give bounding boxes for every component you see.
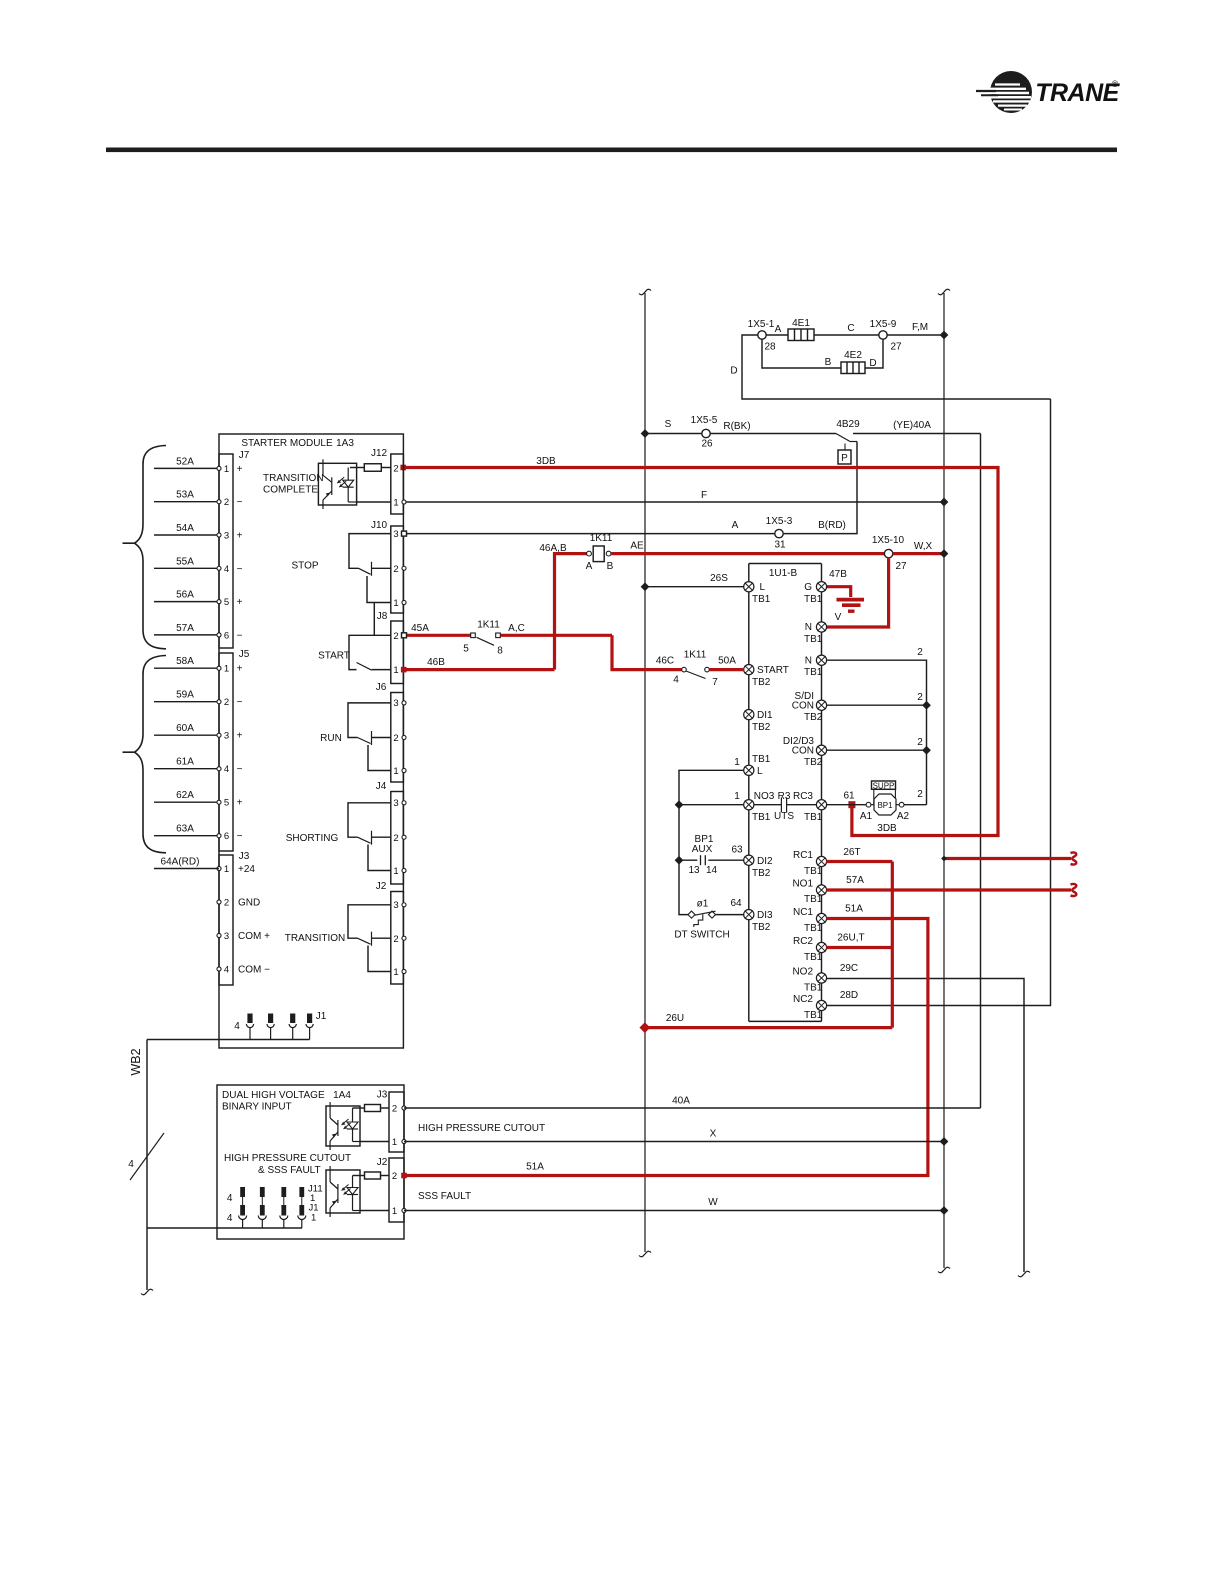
svg-text:53A: 53A [176,490,194,501]
wire STOP lower to J10-1 [367,576,391,603]
svg-text:64A(RD): 64A(RD) [161,857,200,868]
wire RUN lower to J6-1 [368,745,391,771]
wire 64A(RD) to J3 pin 1 [154,868,219,870]
junction internal bus at NO3 [675,800,684,809]
J3 pin 4 [217,967,221,971]
terminal DI2 TB2 (1U1-B) [744,855,754,865]
svg-text:S: S [665,419,672,430]
junction on bus L2 at W,X [940,549,949,558]
svg-text:TB1: TB1 [804,866,823,877]
junction on bus L1 at 26S [641,582,650,591]
svg-text:1: 1 [734,791,740,802]
fuse 4E2 [841,362,865,374]
red junction square at node 61 [848,801,855,808]
wire 60A to J5 pin 3 [154,734,219,736]
node 1X5-1 terminal 28 [758,331,766,339]
module STARTER MODULE 1A3 outline [219,434,403,1048]
svg-text:+: + [237,464,243,475]
terminal DI1 TB2 (1U1-B) [744,710,754,720]
terminal N TB1 second (1U1-B) [816,655,826,665]
svg-text:1: 1 [393,766,398,777]
brace for J7 wire group [123,446,167,649]
terminal NO3 TB1 (1U1-B) [744,800,754,810]
red diamond junction at bus L1 / 26U [639,1022,650,1033]
junction on bus L2 at F,M [940,331,949,340]
svg-text:40A: 40A [672,1096,690,1107]
svg-text:54A: 54A [176,523,194,534]
resistor at J2-2 (SSS) [365,1172,381,1179]
wire 50A (red) from contact 7 to terminal START [709,668,744,671]
svg-text:J6: J6 [376,682,387,693]
svg-text:TB1: TB1 [804,667,823,678]
wire net B lower loop 28 to 4E2 [762,339,841,368]
wire from terminal DI2/D3 CON to vertical 2 [826,749,926,751]
terminal NC1 TB1 (1U1-B) [816,913,826,923]
svg-text:1: 1 [392,1137,397,1148]
svg-text:+: + [237,798,243,809]
svg-text:3DB: 3DB [536,456,556,467]
svg-text:7: 7 [712,677,718,688]
junction on bus L2 at X [940,1137,949,1146]
terminal RC3 TB1 (1U1-B) [816,800,826,810]
switch RUN [320,703,391,745]
svg-text:P: P [841,453,848,464]
wire vertical bus L2 [943,293,945,1268]
svg-text:STARTER MODULE: STARTER MODULE [241,438,333,449]
switch DT SWITCH phase 1 [674,899,729,941]
J2 pin 1 (binary input) [402,1208,406,1212]
J4 pin 3 [402,801,406,805]
svg-text:4: 4 [224,564,229,575]
svg-text:3: 3 [393,798,398,809]
J2 pin 3 [402,903,406,907]
wire J10-1 to J8-2 internal [373,603,375,636]
connector J10 [391,526,404,613]
svg-text:2: 2 [917,647,923,658]
switch 1K11 contacts 5-8 [463,620,525,657]
svg-text:NC2: NC2 [793,994,813,1005]
svg-text:26U,T: 26U,T [837,933,864,944]
wire 1A4 bottom to J3-1 [360,1141,389,1143]
svg-text:3: 3 [224,531,229,542]
resistor at J12-2 [364,464,381,472]
svg-text:56A: 56A [176,590,194,601]
svg-text:+24: +24 [238,864,255,875]
junction at DI2/D3 CON and vertical 2 [922,746,931,755]
connector J4 [391,792,404,885]
svg-text:14: 14 [706,865,718,876]
svg-text:GND: GND [238,898,260,909]
svg-text:WB2: WB2 [129,1048,143,1075]
svg-text:1X5-1: 1X5-1 [748,319,775,330]
svg-text:HIGH PRESSURE CUTOUT: HIGH PRESSURE CUTOUT [224,1153,351,1164]
Trane logo [976,71,1121,113]
connector J3 (binary input) [389,1092,404,1152]
J3 pin 3 [217,933,221,937]
svg-text:1: 1 [393,967,398,978]
wire 40A from J3-2 to 40A vertical [404,1107,981,1109]
svg-text:45A: 45A [411,623,429,634]
wire 26T (red) from RC1 to red riser [826,860,892,863]
J4 pin 1 [402,868,406,872]
svg-text:NC1: NC1 [793,907,813,918]
connector J2 (starter module) [391,892,404,985]
svg-text:1: 1 [393,598,398,609]
J5 pin 1 [217,666,221,670]
svg-text:8: 8 [497,646,503,657]
svg-text:J2: J2 [377,1157,388,1168]
wire from J1 pins to WB2 drop [147,1039,310,1041]
svg-text:B: B [825,357,832,368]
connector J5 [219,653,233,851]
svg-text:1K11: 1K11 [590,533,613,544]
svg-text:F: F [701,490,707,501]
wire TRANSITION lower to J2-1 [368,946,391,972]
svg-text:3: 3 [224,731,229,742]
svg-text:AE: AE [630,541,644,552]
svg-text:RC1: RC1 [793,850,813,861]
wire 1X5-1 to 4E1 [766,334,788,336]
svg-text:®: ® [1112,79,1119,89]
svg-text:1: 1 [224,864,229,875]
svg-text:51A: 51A [845,904,863,915]
svg-text:2: 2 [393,733,398,744]
wire SSS opto to resistor to J2-2 [353,1175,365,1177]
svg-text:HIGH PRESSURE CUTOUT: HIGH PRESSURE CUTOUT [418,1123,545,1134]
wire 46C (red) from 45A corner to 1K11 contact 4 [612,635,682,669]
wire X from J3-1 to bus L2 [404,1141,944,1143]
svg-text:63: 63 [731,845,743,856]
svg-text:J2: J2 [376,881,387,892]
svg-text:4E1: 4E1 [792,318,810,329]
svg-text:1A4: 1A4 [333,1090,351,1101]
svg-text:62A: 62A [176,790,194,801]
svg-text:J7: J7 [239,450,250,461]
J6 pin 2 [402,735,406,739]
wire W,X (red) from 1X5-10 to bus L2 [893,552,944,555]
svg-text:D: D [869,358,876,369]
wire SHORTING lower to J4-1 [368,845,391,871]
svg-text:A2: A2 [897,811,910,822]
svg-text:TB1: TB1 [752,812,771,823]
svg-text:29C: 29C [840,963,858,974]
wire break top of bus L1 [639,289,651,295]
wire DT switch to terminal DI3 label 64 [715,914,744,916]
svg-text:A1: A1 [860,811,873,822]
wire 46B (red) from J8-1 to 46A,B riser [406,668,555,671]
svg-text:BP1: BP1 [877,801,893,810]
svg-text:TB1: TB1 [804,923,823,934]
wire 26U,T (red) from RC2 to red riser [826,946,892,949]
wire from J11/J1 pins to WB2 drop [147,1227,302,1229]
J7 pin 5 [217,600,221,604]
svg-text:TB2: TB2 [752,922,771,933]
pressure switch 4B29 [836,419,860,464]
wire 54A to J7 pin 3 [154,534,219,536]
wire 59A to J5 pin 2 [154,701,219,703]
svg-text:TB2: TB2 [804,712,823,723]
svg-text:61: 61 [843,791,855,802]
svg-text:V: V [835,612,842,623]
svg-text:1K11: 1K11 [477,620,500,631]
wire 58A to J5 pin 1 [154,667,219,669]
svg-text:NO1: NO1 [792,879,813,890]
svg-text:2: 2 [393,934,398,945]
connector J12 [391,454,404,514]
svg-text:4: 4 [224,764,229,775]
terminal DI2/D3 CON TB2 (1U1-B) [816,745,826,755]
svg-text:TB1: TB1 [804,812,823,823]
svg-text:1X5-3: 1X5-3 [766,516,793,527]
svg-text:1: 1 [393,665,398,676]
J3 pin 2 (binary input) [402,1106,406,1110]
wire vertical bus L1 [644,293,646,1252]
svg-text:1: 1 [393,866,398,877]
wire 26S from bus L1 to terminal L [645,586,744,588]
svg-text:4: 4 [128,1159,134,1170]
svg-text:1K11: 1K11 [684,650,707,661]
svg-text:TB1: TB1 [804,952,823,963]
svg-text:DUAL HIGH VOLTAGE: DUAL HIGH VOLTAGE [222,1090,325,1101]
wire break bottom of 29C [1018,1271,1030,1277]
svg-text:6: 6 [224,831,229,842]
svg-text:TB2: TB2 [752,868,771,879]
svg-text:J8: J8 [377,611,388,622]
svg-text:SSS FAULT: SSS FAULT [418,1191,471,1202]
terminal NO1 TB1 (1U1-B) [816,885,826,895]
svg-text:+: + [237,531,243,542]
J6 pin 1 [402,768,406,772]
svg-text:4: 4 [234,1021,240,1032]
junction on bus L1 at S row [641,429,650,438]
wire off-page (red) from bus L2 with hook, RC1 row [944,857,1071,860]
wire 53A to J7 pin 2 [154,501,219,503]
red riser 26T/26U [891,862,894,1028]
svg-text:27: 27 [895,561,907,572]
wire 46A,B (red) from 46B row up to 1K11 coil A [555,554,587,670]
wire 63A to J5 pin 6 [154,835,219,837]
wire 3DB (red) from J12-2 right, down, to terminal 61 [403,468,998,836]
wire 26U (red) from bus L1 to red riser [645,1026,893,1029]
svg-text:26T: 26T [843,847,860,858]
junction at S/DI CON and vertical 2 [922,701,931,710]
svg-text:COMPLETE: COMPLETE [263,485,318,496]
J10 pin 1 [402,600,406,604]
svg-text:3DB: 3DB [877,823,897,834]
svg-text:2: 2 [392,1171,397,1182]
svg-text:−: − [237,564,243,575]
svg-text:COM −: COM − [238,965,270,976]
junction on bus L2 at W [940,1206,949,1215]
svg-text:ø1: ø1 [697,899,709,910]
svg-text:58A: 58A [176,656,194,667]
J6 pin 3 [402,701,406,705]
svg-text:RUN: RUN [320,733,342,744]
svg-text:60A: 60A [176,723,194,734]
svg-text:1: 1 [392,1206,397,1217]
svg-text:2: 2 [393,464,398,475]
terminal L TB1 lower (1U1-B) [744,765,754,775]
terminal DI3 TB2 (1U1-B) [744,910,754,920]
svg-text:CON: CON [792,746,814,757]
off-page hook arrow lower [1071,884,1077,896]
svg-text:1U1-B: 1U1-B [769,568,798,579]
svg-text:R(BK): R(BK) [723,421,750,432]
svg-text:−: − [237,630,243,641]
wire suppressor A2 to vertical 2 [904,804,927,806]
svg-text:G: G [804,582,812,593]
wire net D 4E2 to 27 [865,339,883,368]
connector J8 [391,621,404,684]
svg-text:57A: 57A [176,623,194,634]
wire internal bus to NO3 [679,804,744,806]
connector J1 (starter module bottom) [234,1011,327,1040]
svg-text:B: B [607,561,614,572]
svg-text:26U: 26U [666,1013,684,1024]
wire S from bus L1 to 1X5-5 [645,433,702,435]
wire net F from J12-1 to bus L2 [403,501,944,503]
svg-text:6: 6 [224,630,229,641]
svg-text:31: 31 [774,540,786,551]
svg-text:1A3: 1A3 [336,438,354,449]
svg-text:63A: 63A [176,824,194,835]
switch START [318,635,391,670]
svg-text:AUX: AUX [692,844,713,855]
svg-text:D: D [730,366,737,377]
wire 47B (red) from terminal G to ground [826,587,850,597]
wire AE (red) from coil B to 1X5-10 [611,552,884,555]
connector J6 [391,693,404,783]
svg-text:46A,B: 46A,B [539,543,567,554]
connector J2 (binary input) [389,1158,404,1222]
svg-text:3: 3 [224,931,229,942]
J3 pin 1 (binary input) [402,1139,406,1143]
wire 57A (red) from NO1 to off-page hook [826,888,1071,891]
svg-text:F,M: F,M [912,322,928,333]
svg-text:28: 28 [764,342,776,353]
wire B(RD) from 1X5-3 up to 4B29 [783,442,857,534]
svg-text:J3: J3 [377,1090,388,1101]
J4 pin 2 [402,835,406,839]
svg-text:3: 3 [393,900,398,911]
switch SHORTING [286,803,391,845]
svg-text:13: 13 [688,865,700,876]
wire RC3 to suppressor A1 [826,804,866,806]
terminal RC1 TB1 (1U1-B) [816,856,826,866]
svg-text:4B29: 4B29 [836,419,860,430]
svg-text:L: L [757,766,763,777]
svg-text:TRANE: TRANE [1035,79,1120,107]
connector J11/J1 pins (binary input) [227,1184,323,1229]
svg-text:−: − [237,697,243,708]
relay coil 1K11 [586,533,614,572]
wire SSS opto bottom to J2-1 [360,1210,389,1212]
svg-text:W: W [708,1197,718,1208]
svg-text:26: 26 [701,439,713,450]
wire 4B29 to 40A vertical, label (YE)40A [853,433,981,435]
svg-text:COM +: COM + [238,931,270,942]
svg-text:27: 27 [890,342,902,353]
svg-text:−: − [237,497,243,508]
svg-text:UTS: UTS [774,811,794,822]
wire R(BK) 1X5-5 to pressure switch 4B29 [710,433,836,435]
svg-text:2: 2 [917,692,923,703]
svg-text:2: 2 [393,631,398,642]
terminal RC2 TB1 (1U1-B) [816,942,826,952]
node 1X5-5 terminal 26 [702,429,710,437]
svg-text:1: 1 [734,757,740,768]
wire V (red) from 1X5-10 down to terminal N [826,558,888,627]
switch TRANSITION [285,905,391,946]
svg-text:START: START [318,651,350,662]
node 1X5-9 terminal 27 [879,331,887,339]
switch STOP [291,534,390,576]
svg-text:N: N [805,656,812,667]
junction on bus L2 at F [940,498,949,507]
svg-text:X: X [710,1129,717,1140]
svg-text:TB2: TB2 [752,677,771,688]
svg-text:1: 1 [311,1213,316,1224]
terminal G TB1 (1U1-B) [816,582,826,592]
svg-text:(YE)40A: (YE)40A [893,420,931,431]
J8 pin 2 terminal [402,633,407,638]
svg-text:A,C: A,C [508,623,525,634]
wire 51A (red) from NC1 down to J2-2 [403,919,928,1176]
J2 pin 1 [402,969,406,973]
wire from terminal S/DI CON to vertical 2 [826,704,926,706]
svg-text:4: 4 [227,1193,233,1204]
svg-text:1X5-9: 1X5-9 [870,319,897,330]
wire break bottom of bus L2 [938,1267,950,1273]
svg-text:C: C [847,323,854,334]
svg-text:2: 2 [917,789,923,800]
J7 pin 1 [217,466,221,470]
svg-text:4: 4 [227,1213,233,1224]
svg-text:TB2: TB2 [804,757,823,768]
svg-text:52A: 52A [176,456,194,467]
svg-text:A: A [775,324,782,335]
svg-text:& SSS FAULT: & SSS FAULT [258,1165,321,1176]
svg-text:TB1: TB1 [752,754,771,765]
header rule [106,148,1117,153]
svg-text:2: 2 [224,898,229,909]
svg-text:CON: CON [792,701,814,712]
J5 pin 6 [217,834,221,838]
svg-text:B(RD): B(RD) [818,520,846,531]
svg-text:+: + [237,664,243,675]
connector J3 (module power) [219,855,233,985]
wire 52A to J7 pin 1 [154,467,219,469]
svg-text:1: 1 [224,464,229,475]
J7 pin 6 [217,633,221,637]
wire net C 4E1 to 1X5-9 [814,334,879,336]
wire break top of bus L2 [938,289,950,295]
svg-text:TB1: TB1 [804,894,823,905]
svg-text:5: 5 [463,644,469,655]
svg-text:A: A [586,561,593,572]
svg-text:TB1: TB1 [804,634,823,645]
svg-text:4: 4 [673,675,679,686]
svg-text:5: 5 [224,798,229,809]
svg-text:TB2: TB2 [752,722,771,733]
wire 28D to D vertical [826,399,1050,1006]
J10 pin 3 terminal [402,531,407,536]
svg-text:DI1: DI1 [757,710,773,721]
svg-text:1: 1 [393,498,398,509]
J2 pin 2 [402,936,406,940]
svg-text:51A: 51A [526,1162,544,1173]
svg-text:5: 5 [224,597,229,608]
